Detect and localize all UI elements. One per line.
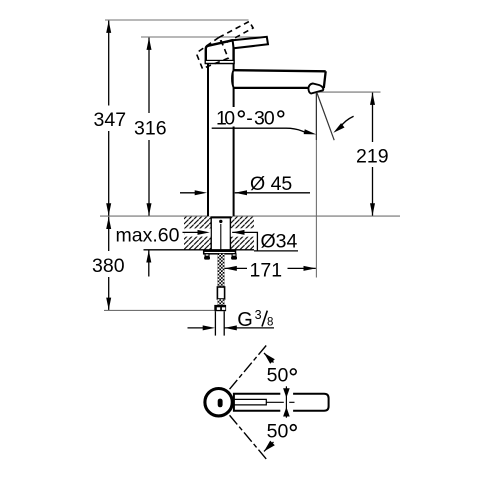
svg-text:50: 50 (267, 364, 289, 386)
dimension Ø34 halo left (184, 228, 211, 236)
deck bottom line (144, 249, 255, 251)
extension line below aerator (spout axis vertical) (315, 93, 317, 278)
mounting washer (204, 251, 236, 254)
leader 10-30 (212, 128, 306, 132)
dimension 316 (148, 38, 150, 216)
bottom view base circle (205, 389, 232, 416)
bottom view swivel chain line lower (227, 412, 266, 459)
bottom view centerline (266, 401, 294, 403)
reference line 316 upper extension (lever rest tip level) (141, 36, 264, 38)
reference line deck level (100, 215, 400, 217)
reference line top (347 upper extension, lever raised tip level) (105, 19, 249, 21)
G3/8 connection tube (215, 311, 224, 335)
left mounting bolt (204, 254, 210, 260)
shank center dot (219, 220, 222, 223)
dimension 380 (108, 217, 110, 310)
deck hatching left block (184, 217, 211, 250)
aerator (308, 84, 323, 94)
dimension G3/8 arrows (188, 327, 209, 329)
spray angle line 30deg (317, 93, 334, 141)
dimension Ø34 halo right (231, 228, 258, 236)
deck hatching right block (230, 217, 254, 250)
hose smooth section (217, 287, 224, 299)
text G 3/8 (237, 308, 273, 331)
faucet column body (208, 63, 234, 216)
shank centerline (220, 224, 222, 250)
svg-text:max.60: max.60 (116, 225, 180, 247)
curved rotation arrow (340, 116, 353, 127)
svg-text:50: 50 (267, 421, 289, 443)
dimension max.60 lower arrow (148, 250, 150, 276)
svg-text:316: 316 (134, 118, 167, 140)
label 10-30 halo (218, 107, 288, 127)
bottom view angle arrow line (285, 386, 287, 417)
bottom view bar gaps for arrows (280, 391, 293, 396)
svg-text:G: G (237, 309, 253, 331)
svg-text:3: 3 (255, 308, 262, 322)
svg-text:380: 380 (92, 255, 125, 277)
svg-text:-: - (246, 108, 253, 130)
svg-text:0: 0 (264, 108, 275, 130)
shank left edge (210, 216, 212, 250)
dimension 171 (225, 267, 248, 269)
braided supply hose upper (217, 254, 224, 287)
column base shoulder on deck (211, 216, 232, 219)
shank right edge (229, 216, 231, 250)
dimension Ø45 (180, 192, 200, 194)
right mounting bolt (231, 254, 237, 260)
bottom view swivel chain line upper (227, 346, 266, 393)
svg-text:8: 8 (267, 317, 273, 329)
bottom view inner tube (234, 399, 266, 405)
svg-text:Ø 45: Ø 45 (250, 173, 292, 195)
hose connector nut (214, 305, 226, 311)
svg-text:0: 0 (224, 108, 235, 130)
spout (232, 70, 326, 88)
handle base flange (205, 60, 234, 63)
svg-text:171: 171 (250, 260, 283, 282)
dimension Ø34 arrows and leader (183, 231, 203, 233)
handle lever solid (233, 37, 268, 49)
svg-text:219: 219 (356, 146, 389, 168)
svg-text:347: 347 (94, 109, 127, 131)
reference line 380 baseline (104, 309, 214, 311)
bottom view spout bar (234, 394, 329, 411)
handle body solid (206, 40, 234, 63)
dimension 347 (108, 21, 110, 216)
handle raised position dashed outline (193, 21, 260, 69)
spray angle line 10deg (315, 93, 317, 140)
bottom view center slot (218, 399, 223, 408)
leader 50 lower (264, 442, 274, 452)
reference line aerator outlet level (318, 91, 380, 93)
leader 50 upper (264, 353, 274, 363)
hose braid lower (217, 299, 224, 305)
dimension 219 (372, 93, 374, 216)
svg-text:Ø34: Ø34 (261, 230, 298, 252)
